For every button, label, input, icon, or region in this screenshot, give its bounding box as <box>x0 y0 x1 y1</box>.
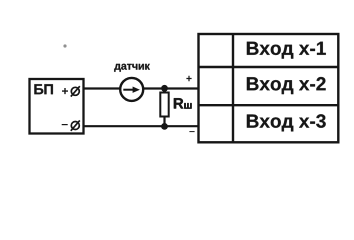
power supply БП box <box>30 79 84 134</box>
terminal screw + of БП <box>71 86 80 96</box>
label - (БП output) <box>62 124 68 125</box>
wire: shunt branch <box>163 89 165 127</box>
wire: bottom (-) rail from БП to input table <box>84 125 199 127</box>
junction dot top <box>161 85 168 92</box>
label Вход х-2 <box>247 77 326 94</box>
junction dot bottom <box>161 123 168 130</box>
label датчик <box>114 64 150 72</box>
label БП <box>34 84 53 94</box>
label R <box>174 98 184 108</box>
label Вход х-1 <box>247 42 326 59</box>
shunt resistor Rш body <box>160 93 168 117</box>
wire: top (+) rail from БП to input table <box>84 87 199 89</box>
input terminal table <box>199 34 339 142</box>
scan artifact speck <box>63 44 66 47</box>
label + at input <box>186 76 191 81</box>
terminal screw - of БП <box>71 120 80 130</box>
sensor (датчик) current source circle <box>120 78 143 101</box>
label ш (subscript) <box>184 103 191 109</box>
sensor arrow <box>123 87 140 93</box>
label Вход х-3 <box>247 114 326 131</box>
label + (БП output) <box>62 88 68 94</box>
label - at input <box>189 131 194 132</box>
